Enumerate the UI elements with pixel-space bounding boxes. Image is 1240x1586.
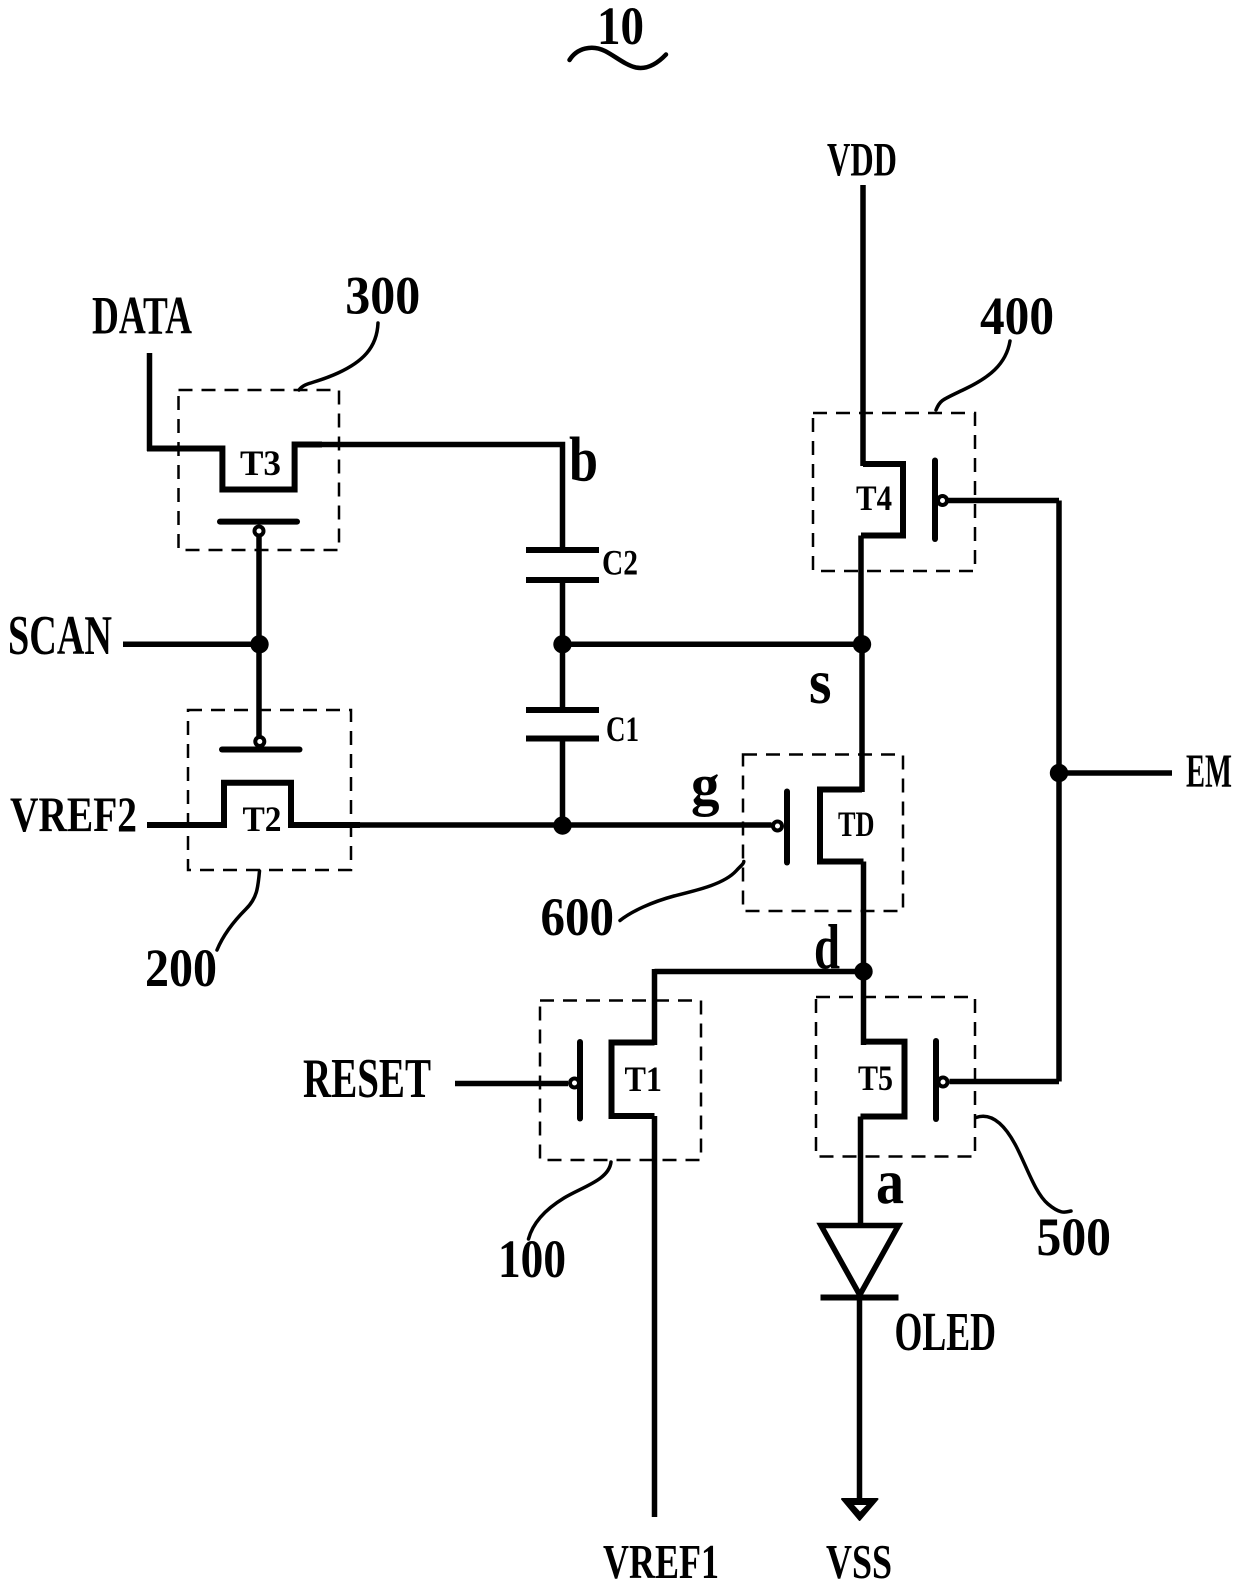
transistor TD channel path [820,790,864,862]
svg-text:400: 400 [980,286,1054,346]
wire DATA lead vertical [147,353,153,451]
wire T4 gate to EM vertical [949,498,1060,504]
VSS label [826,1534,892,1586]
wire b horizontal and down to C2 [319,445,563,553]
svg-text:VDD: VDD [827,134,897,187]
label 100 [498,1229,566,1289]
wire s node to TD [859,644,865,792]
T5 gate bar [933,1041,939,1119]
junction dot SCAN gate [250,635,268,653]
svg-text:DATA: DATA [92,286,192,346]
svg-text:300: 300 [345,266,420,326]
T1 gate bubble [570,1079,579,1088]
svg-text:VSS: VSS [826,1534,892,1586]
VDD label [827,134,897,187]
svg-text:TD: TD [838,804,875,844]
T4 gate bar [932,461,938,540]
transistor T4 channel path [861,464,903,536]
label 300 [345,266,420,326]
capacitor C2 top plate [526,547,599,553]
node a label [876,1146,904,1217]
label 500 [1037,1207,1112,1267]
svg-text:600: 600 [541,887,615,947]
wire VREF2 node to TD gate [355,822,772,828]
svg-text:VREF1: VREF1 [603,1534,719,1586]
leader curve 500 [976,1116,1071,1212]
label C2 [602,543,638,583]
OLED cathode bar [821,1295,899,1301]
svg-text:RESET: RESET [303,1048,431,1110]
label T4 [856,478,892,518]
leader curve 300 [299,323,378,390]
wire OLED to VSS [857,1298,863,1501]
svg-text:a: a [876,1146,904,1217]
svg-text:s: s [809,646,832,717]
svg-text:500: 500 [1037,1207,1112,1267]
transistor T1 channel path [612,1043,655,1117]
OLED diode triangle [821,1226,899,1296]
dashed box 600 around TD [743,755,903,912]
junction dot d [854,962,872,980]
T3 gate bar [220,519,297,525]
dashed box 300 around T3 [179,390,340,550]
node s label [809,646,832,717]
junction dot EM [1050,764,1068,782]
T3 gate bubble [255,527,264,536]
dashed box 100 around T1 [540,1001,701,1161]
label T1 [625,1059,663,1099]
wire EM vertical [1056,501,1062,1082]
svg-text:EM: EM [1186,745,1232,798]
transistor T5 channel path [861,1042,905,1117]
VSS arrowhead [842,1499,878,1520]
label C1 [606,709,639,749]
node b label [569,424,598,495]
DATA label [92,286,192,346]
capacitor C1 top plate [526,707,599,713]
transistor T3 channel path [147,445,322,490]
T4 gate bubble [938,496,947,505]
wire C2 to s node [560,580,566,646]
SCAN label [8,605,112,667]
dashed box 200 around T2 [188,710,351,870]
wire RESET horizontal [455,1081,568,1087]
OLED label [895,1301,997,1362]
dashed box 400 around T4 [813,413,975,571]
capacitor C1 bottom plate [526,736,599,742]
svg-text:T4: T4 [856,478,892,518]
svg-text:b: b [569,424,598,495]
junction dot s left [553,635,571,653]
wire T1 to VREF1 [652,1116,658,1517]
node d label [814,911,840,982]
wire d to T1 vertical [652,969,658,1045]
wire T5 to OLED [858,1117,864,1229]
wire s node down to C1 [560,644,566,712]
TD gate bubble [773,822,782,831]
squiggle under 10 [570,48,667,68]
svg-text:VREF2: VREF2 [10,786,137,842]
VREF2 label [10,786,137,842]
T2 gate bar [222,747,300,753]
wire TD to d node [861,862,867,972]
svg-text:SCAN: SCAN [8,605,112,667]
VREF1 label [603,1534,719,1586]
wire C1 to VREF2 line [560,739,566,826]
label 400 [980,286,1054,346]
label 200 [145,938,217,998]
wire d to T5 vertical [861,972,867,1046]
svg-text:10: 10 [597,0,644,56]
leader curve 200 [217,871,260,950]
label T5 [858,1058,893,1098]
svg-text:T3: T3 [240,443,281,483]
figure label 10 [597,0,644,56]
leader curve 400 [936,341,1010,410]
label T2 [243,799,282,839]
svg-text:g: g [691,752,720,817]
svg-text:OLED: OLED [895,1301,997,1362]
capacitor C2 bottom plate [526,577,599,583]
wire s horizontal [563,642,863,648]
T5 gate bubble [939,1078,948,1087]
svg-text:C2: C2 [602,543,638,583]
wire T3/T2 gate vertical [256,536,262,737]
TD gate bar [784,792,790,863]
junction dot C1 bottom [553,816,571,834]
dashed box 500 around T5 [816,997,975,1157]
label TD [838,804,875,844]
wire VDD vertical [860,185,866,466]
svg-text:C1: C1 [606,709,639,749]
label 600 [541,887,615,947]
RESET label [303,1048,431,1110]
EM label [1186,745,1232,798]
leader curve 100 [529,1162,612,1239]
T2 gate bubble [255,737,264,746]
wire SCAN horizontal [123,642,260,648]
wire EM horizontal [1059,770,1172,776]
leader curve 600 [620,862,744,921]
svg-text:T5: T5 [858,1058,893,1098]
label T3 [240,443,281,483]
transistor T2 channel path [147,783,360,825]
junction dot s right [853,635,871,653]
wire T5 gate to EM vertical [950,1079,1060,1085]
svg-text:100: 100 [498,1229,566,1289]
T1 gate bar [577,1042,583,1119]
svg-text:200: 200 [145,938,217,998]
svg-text:T2: T2 [243,799,282,839]
node g label [691,752,720,817]
svg-text:T1: T1 [625,1059,663,1099]
wire T4 to s node [858,536,864,647]
wire d horizontal to T1 [655,969,864,975]
